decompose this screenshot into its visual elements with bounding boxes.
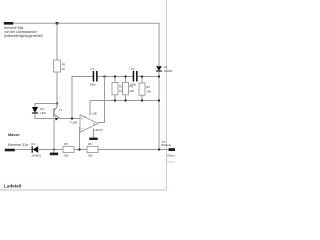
junction right node bbox=[158, 148, 160, 150]
terminal battery bar bbox=[169, 148, 175, 151]
section frame bottom border bbox=[0, 189, 167, 191]
resistor R2 bbox=[112, 77, 124, 101]
svg-text:LM741: LM741 bbox=[95, 128, 104, 132]
svg-text:10k: 10k bbox=[130, 89, 135, 93]
ground bar chassis bbox=[50, 153, 58, 156]
svg-text:LED: LED bbox=[40, 111, 45, 115]
op-amp U1 bbox=[80, 112, 103, 133]
wire LED loop bbox=[35, 114, 54, 119]
svg-text:10k: 10k bbox=[88, 154, 93, 158]
junction dots lower rail bbox=[114, 99, 116, 101]
wire mid rail +UB bbox=[72, 77, 93, 119]
svg-text:1N4001: 1N4001 bbox=[32, 154, 42, 158]
resistor R5 bbox=[63, 142, 74, 157]
node junction at collector bbox=[56, 102, 58, 104]
svg-text:C2: C2 bbox=[131, 67, 135, 71]
wire ground rail right bbox=[98, 149, 169, 151]
transistor T1 bbox=[54, 104, 63, 121]
opamp V- pin to ground bbox=[93, 129, 95, 138]
LED D3 bbox=[32, 107, 38, 113]
junction +in node bbox=[78, 148, 80, 150]
wire bbox=[97, 76, 133, 78]
wire base/led node down bbox=[53, 119, 55, 153]
svg-text:Masse: Masse bbox=[8, 133, 20, 137]
svg-text:R1: R1 bbox=[62, 63, 66, 67]
wire noninverting input down bbox=[79, 128, 82, 150]
diode D2 bbox=[33, 146, 39, 153]
capacitor C1 bbox=[93, 71, 95, 82]
svg-text:TL081: TL081 bbox=[70, 121, 78, 125]
svg-text:10k: 10k bbox=[64, 154, 69, 158]
junction top at R1 branch bbox=[56, 22, 59, 25]
wire top rail bbox=[13, 23, 159, 66]
ground bar opamp bbox=[89, 138, 97, 140]
svg-text:Klemme 31b: Klemme 31b bbox=[8, 143, 28, 147]
svg-text:R5: R5 bbox=[64, 142, 68, 146]
svg-text:100n: 100n bbox=[90, 83, 97, 87]
wire bbox=[137, 76, 159, 78]
svg-text:D1: D1 bbox=[164, 66, 168, 69]
svg-text:Ladeteil: Ladeteil bbox=[4, 184, 21, 189]
svg-text:R6: R6 bbox=[88, 142, 92, 146]
wire to LED branch bbox=[35, 104, 57, 108]
junction ground node bbox=[53, 148, 55, 150]
wire bbox=[38, 149, 63, 151]
svg-text:Batterie: Batterie bbox=[162, 143, 172, 147]
svg-text:D2: D2 bbox=[32, 142, 36, 146]
terminal Masse bar bbox=[5, 149, 15, 152]
wire ground rail left bbox=[15, 149, 32, 151]
junction emitter node bbox=[71, 117, 73, 119]
section frame right border bbox=[166, 0, 168, 190]
svg-text:(halbwellengleichgerichtet): (halbwellengleichgerichtet) bbox=[4, 34, 42, 38]
wire lower rail bbox=[90, 101, 159, 116]
svg-text:C1: C1 bbox=[91, 67, 95, 71]
svg-text:1N4001: 1N4001 bbox=[164, 70, 173, 73]
resistor R4 bbox=[139, 77, 151, 101]
svg-text:+: + bbox=[81, 117, 83, 121]
svg-text:10k: 10k bbox=[146, 89, 151, 93]
diode D1 bbox=[156, 66, 162, 70]
wire right vertical bbox=[158, 72, 160, 150]
capacitor C2 bbox=[133, 71, 135, 82]
terminal 59a bar bbox=[4, 22, 13, 25]
resistor R3 bbox=[123, 77, 135, 101]
resistor R1 bbox=[54, 23, 67, 103]
wire bbox=[74, 149, 87, 151]
svg-text:1k: 1k bbox=[62, 67, 66, 71]
neighbour frame stub right edge bbox=[167, 161, 176, 163]
wire emitter to opamp input bbox=[61, 118, 81, 120]
wire feedback from output to top rail bbox=[98, 77, 105, 123]
svg-text:−: − bbox=[81, 127, 83, 131]
svg-text:+UB: +UB bbox=[91, 112, 97, 116]
junction dots top rail bbox=[103, 75, 105, 77]
resistor R6 bbox=[87, 142, 98, 157]
svg-text:T1: T1 bbox=[59, 108, 63, 112]
svg-text:Klemme: Klemme bbox=[168, 154, 176, 158]
